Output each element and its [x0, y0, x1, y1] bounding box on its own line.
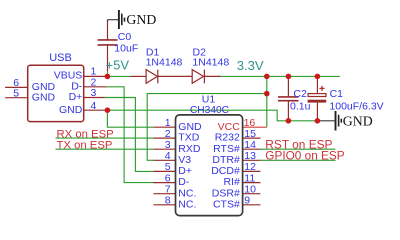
wire V3 net: U1 pin4 to VCC drop: [147, 94, 267, 161]
diode D2 symbol: [192, 70, 204, 84]
svg-text:8: 8: [165, 195, 171, 207]
capacitor C1 polarized: top plate: [308, 94, 326, 97]
capacitor C0 leads: [107, 21, 109, 71]
junction node 3.3V rail / C2: [286, 74, 292, 80]
svg-text:100uF/6.3V: 100uF/6.3V: [329, 100, 383, 112]
svg-text:TX on ESP: TX on ESP: [57, 140, 113, 152]
U1 pin16 stub (red VCC pin): [243, 126, 267, 128]
svg-text:D+: D+: [69, 91, 83, 103]
svg-text:4: 4: [91, 100, 97, 112]
wire +5V riser to C0: [107, 71, 109, 77]
diode D1 symbol: [146, 70, 158, 84]
svg-text:3.3V: 3.3V: [237, 58, 264, 73]
wire D+ net: USB pin3 to U1 pin5: [105, 98, 154, 172]
U1 right pin stubs 15-9: [243, 138, 261, 205]
wire 3.3V rail: [221, 75, 340, 77]
svg-text:NC.: NC.: [178, 198, 196, 210]
svg-text:9: 9: [244, 195, 250, 207]
wire GND net: USB pin4 to bottom ground rail: [107, 110, 318, 121]
capacitor C0 plates: [98, 40, 118, 45]
svg-text:GND: GND: [126, 12, 156, 27]
junction node 3.3V rail / VCC drop: [264, 74, 270, 80]
capacitor C1 leads: [316, 76, 318, 120]
svg-text:0.1u: 0.1u: [290, 101, 311, 113]
capacitor C1 bottom plate (thick): [308, 100, 327, 103]
svg-text:GND: GND: [59, 104, 83, 116]
svg-text:1N4148: 1N4148: [146, 56, 183, 68]
capacitor C1 plus sign: [319, 86, 324, 91]
svg-text:USB: USB: [49, 52, 72, 64]
junction node ground rail / C2: [286, 118, 292, 124]
svg-text:GND: GND: [343, 114, 373, 129]
ground symbol bottom right: [318, 111, 373, 131]
wire D- net: USB pin2 to U1 pin6: [107, 87, 154, 183]
junction node +5V at USB pin1: [105, 74, 111, 80]
svg-text:3: 3: [91, 87, 97, 99]
wire VCC drop from 3.3V rail to U1 pin16: [266, 76, 268, 127]
svg-text:GPIO0 on ESP: GPIO0 on ESP: [265, 149, 344, 163]
USB connector pin stubs (pins 1-4 right, 6,5 left): [5, 76, 107, 110]
svg-text:5: 5: [165, 161, 171, 173]
junction node GND at USB pin4: [105, 107, 111, 113]
svg-text:+5V: +5V: [106, 57, 130, 72]
wire TX on ESP net (U1 RXD): [56, 148, 154, 150]
svg-text:GND: GND: [32, 91, 56, 103]
wire GPIO0 on ESP net (U1 pin13): [260, 159, 335, 161]
wire RST on ESP net (U1 pin14): [260, 148, 335, 150]
svg-text:DCD#: DCD#: [211, 165, 240, 177]
diode D2 cathode stub: [204, 75, 220, 77]
capacitor C2 leads: [287, 76, 289, 120]
USB connector J? body: [28, 65, 84, 121]
wire D1 cathode to D2 anode: [158, 75, 192, 77]
svg-text:U1: U1: [202, 94, 216, 106]
ground symbol top (C0): [108, 10, 157, 29]
svg-text:C0: C0: [118, 31, 132, 43]
svg-text:D+: D+: [178, 165, 192, 177]
svg-text:C2: C2: [293, 88, 307, 100]
IC U1 CH340C body: [176, 115, 243, 216]
svg-text:C1: C1: [330, 88, 344, 100]
junction node V3 / VCC drop: [264, 91, 270, 97]
junction node ground rail / C1: [315, 118, 321, 124]
svg-text:CH340C: CH340C: [190, 105, 229, 116]
svg-text:10uF: 10uF: [114, 42, 138, 54]
diode D1 anode wire: [131, 75, 147, 77]
wire +5V net: USB VBUS to D1 anode: [107, 75, 130, 77]
wire GND branch: USB pin4 down to U1 pin1: [107, 110, 153, 127]
svg-text:1N4148: 1N4148: [192, 56, 229, 68]
junction node 3.3V rail / C1: [315, 74, 321, 80]
svg-text:12: 12: [244, 161, 256, 173]
U1 left pin stubs 1-8: [153, 127, 175, 205]
wire RX on ESP net (U1 TXD): [56, 137, 154, 139]
svg-text:CTS#: CTS#: [213, 198, 240, 210]
svg-text:5: 5: [13, 87, 19, 99]
capacitor C2 plates: [278, 97, 299, 101]
